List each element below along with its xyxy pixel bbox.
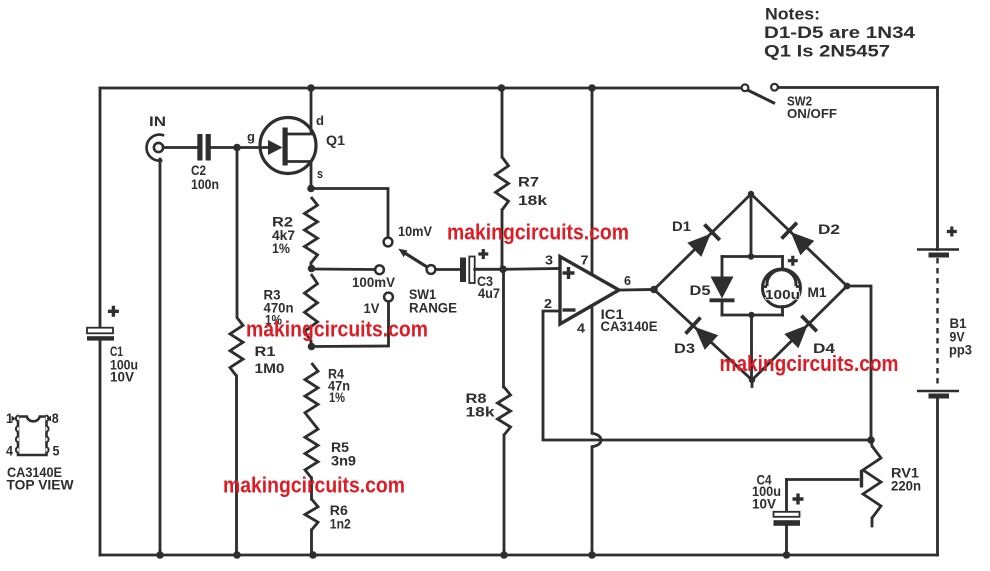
junction pin4-ground	[588, 551, 596, 559]
label C3	[477, 273, 500, 301]
label 1V	[364, 301, 380, 316]
label R8	[466, 390, 495, 420]
capacitor C2	[197, 134, 211, 161]
label pin5	[53, 443, 60, 459]
wire pin 2	[543, 311, 560, 440]
IC package pins	[16, 416, 49, 453]
junction IN-ground	[156, 551, 164, 559]
switch SW2 lever	[748, 90, 776, 104]
svg-text:D3: D3	[674, 340, 695, 356]
label C1	[110, 343, 138, 385]
wire bridge arm D4	[752, 286, 847, 380]
label pin1	[6, 410, 16, 426]
label R5	[331, 439, 356, 469]
wire C3 to node	[475, 268, 503, 271]
switch SW1 lever	[398, 249, 427, 268]
wire SW1 to C3	[436, 268, 460, 271]
wire R1 to ground	[235, 376, 238, 555]
contact 1V	[384, 293, 393, 302]
diode D3	[686, 318, 719, 350]
label pin 2	[544, 296, 552, 311]
diode D5	[710, 277, 735, 301]
polarity plus C4	[793, 494, 804, 505]
label d	[316, 113, 324, 128]
wire pin3 input	[503, 267, 560, 271]
label D2	[818, 221, 840, 237]
junction C4-ground	[783, 551, 791, 559]
svg-text:3n9: 3n9	[331, 453, 356, 469]
input jack IN	[147, 135, 165, 161]
svg-text:4u7: 4u7	[478, 285, 500, 301]
transistor Q1	[260, 88, 316, 189]
wire pin 7	[591, 88, 594, 273]
svg-text:Notes:: Notes:	[765, 5, 820, 24]
wire bridge arm D1	[654, 194, 751, 290]
wire right frame upper	[936, 88, 939, 250]
junction pin7 on rail	[588, 84, 596, 92]
label SW1 RANGE	[409, 287, 457, 316]
label pin4	[6, 443, 13, 459]
wire gate node down	[236, 148, 239, 318]
resistor R6	[305, 499, 318, 530]
label meter 100u	[765, 288, 800, 302]
wire IN down to ground	[159, 159, 162, 555]
wire R6 to ground	[310, 530, 313, 555]
label R6	[330, 502, 351, 532]
svg-text:100n: 100n	[191, 176, 219, 192]
junction R1-ground	[233, 551, 241, 559]
svg-text:CA3140E: CA3140E	[601, 318, 658, 334]
svg-text:R1: R1	[255, 343, 276, 359]
svg-text:D1-D5 are 1N34: D1-D5 are 1N34	[764, 23, 916, 42]
svg-text:18k: 18k	[466, 404, 495, 420]
wire C4 to ground	[785, 526, 788, 555]
junction feedback-RV1	[867, 436, 875, 444]
svg-text:2: 2	[544, 296, 552, 311]
diode D4	[784, 316, 817, 349]
capacitor C1	[87, 328, 114, 341]
svg-text:18k: 18k	[518, 192, 547, 208]
wire R2 bottom	[310, 263, 313, 269]
svg-text:Q1 Is 2N5457: Q1 Is 2N5457	[764, 41, 890, 60]
label D3	[674, 340, 695, 356]
svg-text:1%: 1%	[272, 240, 290, 256]
svg-text:makingcircuits.com: makingcircuits.com	[223, 472, 405, 497]
contact 100mV	[375, 265, 384, 274]
junction gate node	[233, 144, 241, 152]
switch SW1 common	[427, 265, 436, 274]
label R7	[518, 174, 547, 209]
label g	[247, 129, 255, 144]
wire IN to C2	[163, 146, 197, 149]
wire pin 4 with hop	[592, 306, 601, 555]
svg-text:D1: D1	[672, 218, 691, 234]
wire bridge bottom stub	[750, 315, 753, 380]
junction Q1 source node	[307, 185, 315, 193]
wire meter box top	[722, 255, 783, 258]
resistor R7	[496, 157, 509, 210]
svg-text:makingcircuits.com: makingcircuits.com	[720, 351, 899, 376]
svg-text:R7: R7	[518, 174, 539, 190]
wire 100mV tap	[312, 268, 376, 271]
svg-text:7: 7	[581, 253, 589, 268]
svg-text:4: 4	[6, 443, 13, 459]
wire node to R8	[502, 269, 505, 387]
junction bridge right node	[844, 283, 851, 290]
label notes	[764, 5, 916, 61]
wire source to 10mV tap	[311, 189, 388, 238]
svg-text:3: 3	[545, 253, 553, 268]
resistor R1	[230, 317, 243, 376]
label D1	[672, 218, 691, 234]
wire R3 bottom	[310, 341, 313, 347]
label C2	[191, 162, 219, 192]
label pin8	[47, 410, 59, 426]
label pin 4	[577, 321, 586, 336]
resistor R4	[305, 363, 318, 421]
svg-text:8: 8	[52, 410, 59, 426]
resistor R2	[305, 197, 318, 263]
junction box bottom	[748, 312, 754, 318]
svg-text:D2: D2	[818, 221, 840, 237]
junction R8-ground	[500, 551, 508, 559]
junction C3-R7-R8-pin3	[499, 266, 507, 274]
svg-text:IN: IN	[149, 113, 166, 129]
wire output pin6	[619, 288, 654, 291]
IC package CA3140E top view	[18, 417, 47, 456]
diode D2	[782, 223, 815, 256]
label pin 7	[581, 253, 589, 268]
svg-text:ON/OFF: ON/OFF	[787, 107, 837, 121]
wire right frame lower	[936, 398, 939, 556]
label D5	[690, 282, 711, 298]
label s	[317, 166, 323, 181]
watermark 4	[223, 472, 405, 497]
junction bridge bottom node	[749, 377, 755, 387]
svg-text:1M0: 1M0	[255, 360, 285, 376]
wire bridge right to RV1	[847, 286, 871, 440]
polarity plus C1	[108, 306, 119, 317]
svg-text:TOP VIEW: TOP VIEW	[7, 477, 75, 493]
svg-text:pp3: pp3	[949, 343, 972, 358]
wiper RV1	[787, 470, 862, 488]
wire box right lower	[781, 307, 784, 316]
junction bridge top node	[748, 191, 754, 197]
svg-text:s: s	[317, 166, 323, 181]
watermark 1	[447, 219, 629, 244]
label M1	[808, 284, 827, 300]
label 100mV	[352, 275, 395, 290]
watermark 2	[246, 316, 428, 341]
label IN	[149, 113, 166, 129]
contact 10mV	[384, 238, 393, 247]
capacitor C3	[460, 257, 475, 284]
wire left frame	[99, 88, 102, 328]
label IC1	[601, 306, 658, 334]
wire R8 to ground	[503, 435, 506, 555]
wire R5-R6	[310, 478, 313, 499]
junction 1V node	[308, 343, 316, 351]
resistor R8	[498, 387, 511, 435]
wire 1V tap	[312, 302, 389, 347]
svg-text:g: g	[247, 129, 255, 144]
svg-text:RANGE: RANGE	[409, 301, 457, 316]
wire bottom ground rail	[100, 554, 938, 557]
junction R7 on rail	[498, 84, 506, 92]
resistor R3	[305, 274, 318, 341]
svg-text:4: 4	[577, 321, 586, 336]
wire bridge top stub	[750, 194, 753, 257]
wire top supply rail	[100, 86, 938, 89]
label R2	[272, 214, 295, 257]
polarity plus C3	[478, 249, 488, 259]
label R4	[328, 366, 350, 406]
label pin 6	[624, 273, 631, 288]
svg-text:d: d	[316, 113, 324, 128]
wire C2 to gate node	[211, 146, 237, 149]
wire R7 to node	[502, 210, 503, 269]
wire wiper to C4	[785, 480, 788, 513]
junction bridge left node	[650, 286, 658, 294]
svg-text:1n2: 1n2	[330, 516, 351, 532]
svg-text:220n: 220n	[891, 479, 921, 494]
diode D1	[687, 224, 720, 257]
label B1	[949, 316, 972, 358]
label SW2 ONOFF	[787, 95, 837, 122]
resistor R5	[305, 421, 318, 478]
junction 100mV node	[308, 265, 316, 273]
svg-text:100mV: 100mV	[352, 275, 395, 290]
svg-text:makingcircuits.com: makingcircuits.com	[246, 316, 428, 341]
svg-text:Q1: Q1	[326, 132, 345, 148]
label R1	[255, 343, 285, 376]
svg-text:10mV: 10mV	[398, 224, 432, 239]
potentiometer RV1	[863, 440, 881, 526]
op-amp U1 IC1	[560, 257, 619, 325]
battery B1	[917, 250, 959, 397]
wire box right upper	[781, 257, 784, 271]
label pin 3	[545, 253, 553, 268]
watermark 3	[720, 351, 899, 376]
label R3	[264, 287, 294, 328]
meter M1	[763, 269, 801, 307]
wire feedback horizontal	[543, 439, 871, 442]
label D4	[813, 340, 835, 356]
switch SW2 contacts	[742, 84, 778, 91]
svg-text:100u: 100u	[765, 288, 800, 302]
label C4	[752, 473, 781, 512]
svg-text:1V: 1V	[364, 301, 380, 316]
svg-text:makingcircuits.com: makingcircuits.com	[447, 219, 629, 244]
junction box top	[748, 253, 754, 259]
svg-text:6: 6	[624, 273, 631, 288]
polarity plus M1	[788, 256, 798, 266]
wire box left upper	[721, 257, 724, 278]
svg-text:D5: D5	[690, 282, 711, 298]
wire rail to R7	[501, 88, 504, 157]
label Q1	[326, 132, 345, 148]
svg-text:10V: 10V	[110, 369, 135, 385]
wire left frame lower	[99, 340, 102, 555]
wire box left lower	[721, 302, 724, 316]
junction Q1 drain on rail	[307, 84, 315, 92]
label CA3140E TOP VIEW	[7, 464, 75, 493]
junction R6-ground	[309, 551, 317, 559]
wire bridge arm D2	[751, 194, 847, 286]
svg-text:10V: 10V	[752, 497, 776, 512]
svg-text:5: 5	[53, 443, 60, 459]
wire bridge arm D3	[654, 290, 752, 381]
svg-text:M1: M1	[808, 284, 827, 300]
capacitor C4	[774, 512, 801, 526]
polarity plus B1	[947, 227, 957, 237]
wire meter box bottom	[722, 314, 783, 317]
label 10mV	[398, 224, 432, 239]
label RV1	[891, 466, 921, 494]
wire gate node to Q1	[237, 146, 270, 149]
svg-text:1%: 1%	[329, 389, 345, 405]
